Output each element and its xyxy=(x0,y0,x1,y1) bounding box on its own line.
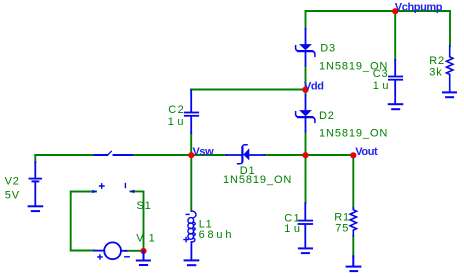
svg-text:Vout: Vout xyxy=(355,146,378,158)
capacitor C2 xyxy=(185,91,198,134)
resistor R1 xyxy=(350,208,356,236)
wire S1 control plus loop from V1 xyxy=(71,192,96,251)
svg-text:Vchpump: Vchpump xyxy=(395,1,443,13)
wire C1 drop xyxy=(305,155,307,203)
diode D2 triangle xyxy=(299,110,312,116)
switch S1 control minus mark xyxy=(124,184,126,188)
svg-text:5V: 5V xyxy=(5,190,20,202)
wire S1 control minus to V1 junction xyxy=(131,191,144,248)
wire D2 anode stub xyxy=(305,90,307,96)
svg-text:Vdd: Vdd xyxy=(304,80,324,92)
ground below R1 xyxy=(347,256,361,271)
resistor R2 xyxy=(447,46,453,92)
inductor L1 xyxy=(188,211,196,260)
junction D2 cathode rail xyxy=(302,152,308,158)
wire rail D1 to Vout xyxy=(264,154,353,156)
V1 plus mark xyxy=(98,255,102,259)
diode D1 triangle xyxy=(243,148,249,160)
voltage source V2 battery xyxy=(29,162,41,205)
svg-text:V1: V1 xyxy=(136,232,159,244)
diode D1 xyxy=(226,145,264,164)
svg-text:1u: 1u xyxy=(373,80,392,92)
wire V1 right lead xyxy=(126,250,144,252)
svg-text:1u: 1u xyxy=(284,223,303,235)
L1 plus mark xyxy=(184,238,188,242)
wire V2 top stub xyxy=(34,155,36,163)
voltage source V1 xyxy=(94,242,127,259)
capacitor C3 xyxy=(389,60,402,103)
svg-text:D3: D3 xyxy=(320,43,336,55)
junction Vchpump xyxy=(392,8,398,14)
L1 minus mark xyxy=(186,213,189,215)
svg-text:68uh: 68uh xyxy=(199,229,235,241)
diode D2 xyxy=(296,95,315,132)
svg-text:1N5819_ON: 1N5819_ON xyxy=(223,174,292,186)
svg-text:V2: V2 xyxy=(5,176,20,188)
ground below V1 xyxy=(137,251,150,265)
wire D3 anode stub xyxy=(305,11,307,29)
switch S1 control minus arrow xyxy=(130,190,135,194)
ground below C3 xyxy=(389,104,403,109)
wire rail left V2 to switch xyxy=(35,154,94,156)
wire L1 drop from Vsw xyxy=(190,155,192,211)
capacitor C1 xyxy=(299,203,313,247)
svg-text:S1: S1 xyxy=(137,200,152,212)
svg-text:C2: C2 xyxy=(168,104,185,116)
ground below R2 xyxy=(443,92,456,97)
svg-text:R2: R2 xyxy=(429,55,445,67)
ground below V2 xyxy=(29,206,43,211)
svg-text:C3: C3 xyxy=(373,68,389,80)
wire rail switch to D1 xyxy=(132,154,227,156)
svg-text:75: 75 xyxy=(335,223,349,235)
wire C2 bottom to Vsw xyxy=(190,133,192,155)
svg-text:Vsw: Vsw xyxy=(193,146,215,158)
junction Vout xyxy=(350,152,356,158)
svg-text:3k: 3k xyxy=(429,67,442,79)
wire D3 cathode to Vdd xyxy=(305,66,307,90)
wire C3 drop from Vchpump xyxy=(394,11,396,60)
junction V1 node xyxy=(140,248,146,254)
wire D2 cathode to rail xyxy=(305,131,307,155)
svg-text:1N5819_ON: 1N5819_ON xyxy=(319,128,388,140)
V1 minus mark xyxy=(125,256,129,258)
ground below C1 xyxy=(299,248,312,253)
diode D3 xyxy=(296,29,315,66)
ground below L1 xyxy=(185,260,199,265)
wire R1 drop from Vout xyxy=(352,155,354,208)
svg-text:1u: 1u xyxy=(168,116,187,128)
diode D3 triangle xyxy=(299,44,312,50)
switch S1 control plus mark xyxy=(100,184,105,188)
switch S1 control plus arrow xyxy=(92,190,97,194)
wire top rail Vchpump xyxy=(306,10,451,12)
wire Vdd horizontal to C2 xyxy=(191,89,306,91)
junction Vsw xyxy=(188,152,194,158)
switch S1 xyxy=(95,151,133,155)
wire R2 top drop xyxy=(449,11,451,46)
wire R1 bottom to ground xyxy=(352,236,354,257)
svg-text:D2: D2 xyxy=(319,110,335,122)
junction Vdd xyxy=(302,87,308,93)
